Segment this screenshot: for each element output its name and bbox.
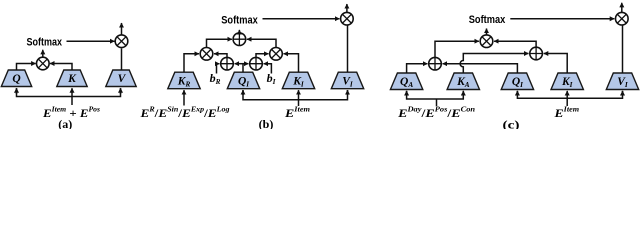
svg-text:V: V <box>118 73 127 85</box>
wire K to multiply <box>50 64 72 71</box>
svg-text:Softmax: Softmax <box>221 14 258 26</box>
wire bR to left plus <box>217 64 220 74</box>
wire multiply to Softmax (c) <box>486 29 488 35</box>
wire right plus to multiply (c) <box>494 41 536 47</box>
trapezoid KI (c) <box>551 73 583 90</box>
trapezoid Q <box>1 70 31 87</box>
wire input bus right (c) <box>517 91 622 98</box>
wire tee to right plus <box>243 63 248 65</box>
wire bus arrow into KI (c) <box>566 91 568 98</box>
wire bus arrow into QI (c) <box>516 91 518 95</box>
wire KA with hop to right plus (c) <box>460 54 528 74</box>
trapezoid QA <box>390 73 422 90</box>
wire KI to right plus (c) <box>544 54 568 74</box>
multiply node (c) <box>480 35 493 48</box>
trapezoid QI (c) <box>501 73 533 90</box>
multiply node left (b) <box>200 48 213 61</box>
wire output arrow (c) <box>621 3 623 13</box>
trapezoid K <box>57 70 87 87</box>
wire input bus (b) <box>243 90 348 100</box>
multiply node right (b) <box>270 48 283 61</box>
wire bI to right plus <box>264 64 272 74</box>
wire Softmax to output multiply (b) <box>263 18 340 20</box>
wire right multiply to sum <box>247 39 276 47</box>
wire output arrow (b) <box>346 4 348 12</box>
svg-text:Softmax: Softmax <box>469 14 506 26</box>
svg-text:EItem: EItem <box>284 106 311 121</box>
wire bus arrow into QA <box>406 91 408 95</box>
trapezoid VI (b) <box>331 72 363 89</box>
trapezoid VI (c) <box>606 73 638 90</box>
wire item feed (c) <box>566 98 568 106</box>
wire KR feed (b) <box>183 90 185 105</box>
wire KR to left multiply <box>184 54 199 72</box>
trapezoid KI (b) <box>282 72 314 89</box>
svg-text:(c): (c) <box>503 118 520 130</box>
wire bus arrow into QI (b) <box>242 90 244 95</box>
multiply node output (b) <box>341 12 354 25</box>
svg-text:(b): (b) <box>259 117 274 129</box>
multiply node output (a) <box>115 35 128 48</box>
trapezoid KA <box>447 73 479 90</box>
wire VI to output multiply (c) <box>622 25 624 73</box>
plus node right small (b) <box>250 57 263 70</box>
trapezoid V <box>106 70 136 87</box>
wire QI to left plus (c) <box>443 64 518 73</box>
wire right plus to right multiply <box>256 54 269 58</box>
svg-text:bR: bR <box>210 71 221 86</box>
multiply node output (c) <box>616 12 629 25</box>
wire multiply to Softmax (a) <box>42 50 44 57</box>
svg-text:Softmax: Softmax <box>27 37 63 49</box>
wire QA to left plus <box>407 64 428 73</box>
wire QI tee to both plus nodes (b) <box>242 64 244 72</box>
wire output arrow (a) <box>121 23 123 35</box>
wire sum to Softmax (b) <box>238 30 240 33</box>
trapezoid QI (b) <box>227 72 259 89</box>
wire Softmax to output multiply (a) <box>67 40 115 42</box>
wire Softmax to output multiply (c) <box>510 18 614 20</box>
svg-text:(a): (a) <box>58 117 72 129</box>
svg-text:Q: Q <box>12 73 20 85</box>
wire left plus to multiply (c) <box>435 41 479 57</box>
trapezoid KR <box>168 72 200 89</box>
plus node left small (b) <box>221 57 234 70</box>
svg-text:EItem: EItem <box>553 106 579 121</box>
wire left multiply to sum <box>207 39 232 47</box>
wire V to output multiply <box>121 48 123 70</box>
wire Q to multiply <box>17 64 36 71</box>
svg-text:ER/ESin/EExp/ELog: ER/ESin/EExp/ELog <box>139 106 230 121</box>
wire KI to right multiply <box>284 54 299 72</box>
multiply node QK (a) <box>37 57 50 70</box>
wire left plus to left multiply <box>214 54 227 58</box>
wire day feed (c) <box>436 99 438 106</box>
plus node sum (b) <box>233 33 246 46</box>
wire input bus left (c) <box>407 91 464 99</box>
wire bus arrow into VI (b) <box>347 90 349 95</box>
svg-text:K: K <box>67 73 77 85</box>
plus node right (c) <box>530 47 543 60</box>
svg-text:EDay/EPos/ECon: EDay/EPos/ECon <box>397 106 475 121</box>
wire bus arrow into K <box>71 88 73 96</box>
wire input bus (a) <box>17 88 121 96</box>
wire tee to left plus <box>235 63 243 65</box>
wire bus arrow into VI (c) <box>622 91 624 95</box>
wire bus arrow into KI (b) <box>298 90 300 100</box>
wire bus arrow into KA <box>462 91 464 95</box>
plus node left (c) <box>429 57 442 70</box>
wire bus arrow into Q <box>16 88 18 94</box>
wire embedding feed (a) <box>71 97 73 106</box>
wire item feed (b) <box>298 100 300 106</box>
wire VI to output multiply (b) <box>347 25 349 72</box>
wire bus arrow into V <box>120 88 122 94</box>
